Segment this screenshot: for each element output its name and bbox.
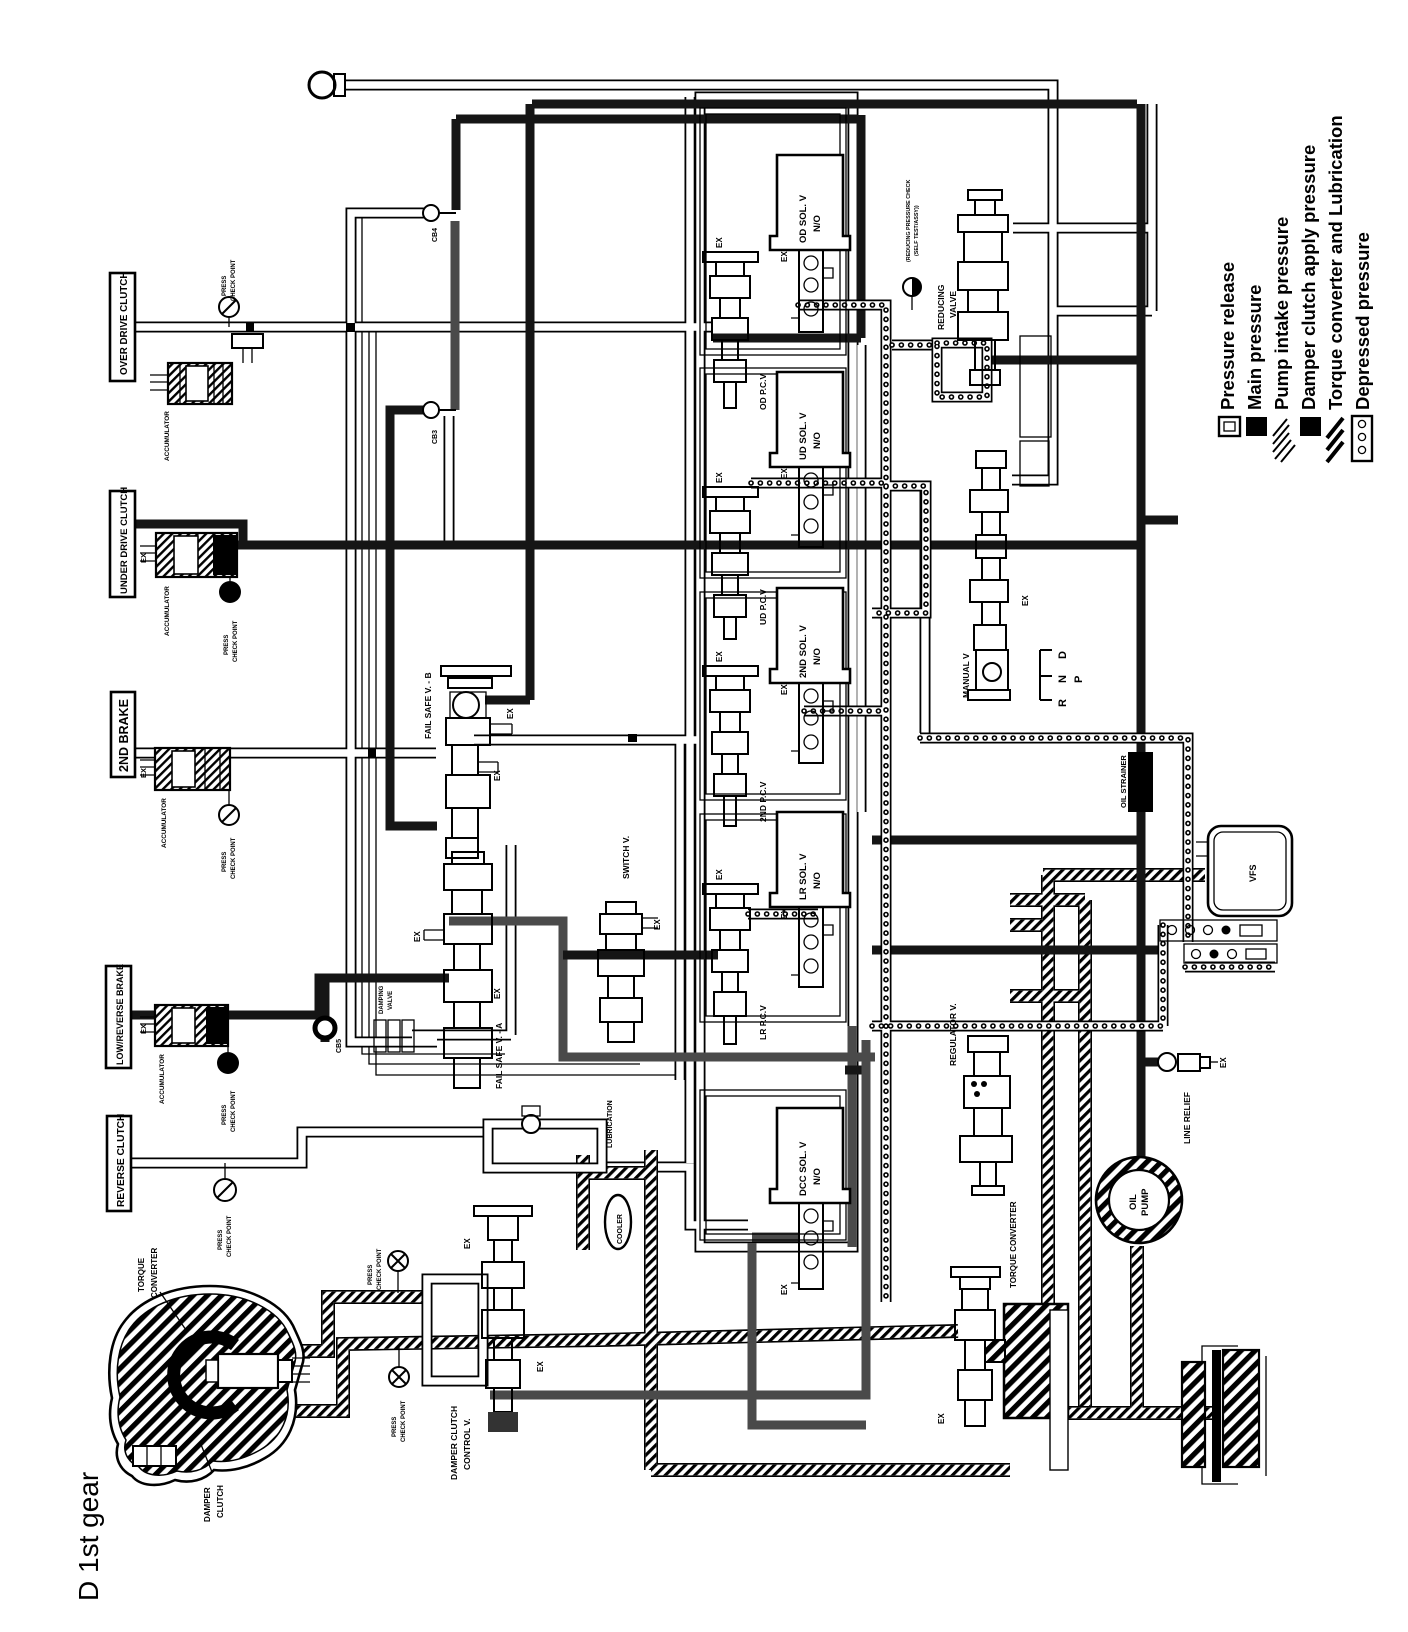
node LOW/REVERSE BRAKE <box>106 964 131 1068</box>
wire: fail safe A staple <box>449 921 875 1057</box>
fail safe A <box>413 852 504 1089</box>
svg-text:D 1st gear: D 1st gear <box>73 1472 104 1601</box>
wire: LR brake line <box>131 978 449 1015</box>
svg-text:PRESS: PRESS <box>218 1230 224 1250</box>
accumulators <box>139 334 263 1104</box>
node UNDER DRIVE CLUTCH <box>110 487 135 597</box>
wire: nested thin runs <box>362 218 693 1075</box>
wire: CB4 upper stub <box>452 119 461 210</box>
valve MANUAL V <box>976 451 1006 468</box>
svg-text:N: N <box>1057 675 1069 683</box>
wire: valve body right vertical <box>856 345 867 812</box>
wire: converter feed double line from circle to right frame <box>344 85 1053 480</box>
valve VFS <box>1196 842 1208 856</box>
svg-text:MANUAL V: MANUAL V <box>961 653 971 698</box>
wire: reducing valve return <box>1013 223 1152 234</box>
valve torque converter <box>951 1267 1000 1277</box>
wire: reducing valve out <box>987 356 1141 365</box>
svg-text:CHECK POINT: CHECK POINT <box>231 1090 237 1132</box>
svg-text:EX: EX <box>1021 595 1030 606</box>
svg-text:UD SOL. V: UD SOL. V <box>798 412 809 460</box>
wire: switch valve vertical <box>675 740 686 1080</box>
cooler <box>605 1100 631 1249</box>
svg-text:CB5: CB5 <box>336 1039 343 1053</box>
accumulator 2ND <box>139 748 230 848</box>
svg-text:CHECK POINT: CHECK POINT <box>231 259 237 301</box>
valve LINE RELIEF <box>1158 1053 1176 1071</box>
svg-text:Main pressure: Main pressure <box>1244 285 1265 410</box>
valve REDUCING VALVE <box>968 190 1002 200</box>
svg-text:EX: EX <box>493 988 502 999</box>
svg-text:EX: EX <box>780 908 789 919</box>
pump OIL PUMP <box>1096 1157 1182 1243</box>
small texts <box>246 323 637 757</box>
wire: UD label link <box>134 524 243 545</box>
svg-text:FAIL SAFE V. - B: FAIL SAFE V. - B <box>423 672 433 739</box>
wire: reverse clutch line tail <box>602 1167 748 1225</box>
svg-text:SWITCH V.: SWITCH V. <box>621 836 631 879</box>
valve LR P.C.V <box>703 884 758 894</box>
wire: CB3 lower double <box>444 416 455 545</box>
node CB5 <box>315 1018 343 1053</box>
wire: LR row bottom <box>872 836 1138 845</box>
svg-text:EX: EX <box>493 770 502 781</box>
node OVER DRIVE CLUTCH <box>110 272 135 381</box>
svg-text:EX: EX <box>715 237 724 248</box>
svg-text:2ND BRAKE: 2ND BRAKE <box>117 699 131 772</box>
svg-text:CHECK POINT: CHECK POINT <box>401 1400 407 1442</box>
svg-text:EX: EX <box>715 472 724 483</box>
valve UD P.C.V <box>703 487 758 497</box>
check balls <box>309 72 602 1168</box>
valve 2ND P.C.V <box>703 666 758 676</box>
svg-text:EX: EX <box>413 931 422 942</box>
svg-text:DAMPER: DAMPER <box>203 1487 212 1522</box>
svg-text:VALVE: VALVE <box>388 991 394 1010</box>
svg-text:Pressure release: Pressure release <box>1217 262 1238 410</box>
node converter feed circle <box>309 72 345 98</box>
svg-text:N/O: N/O <box>812 432 823 449</box>
valve body inner frames <box>700 108 846 1240</box>
svg-text:ACCUMULATOR: ACCUMULATOR <box>164 586 171 636</box>
OD PCV <box>703 237 768 410</box>
svg-text:OIL: OIL <box>1128 1194 1139 1210</box>
wire: main long line UD <box>237 541 1141 550</box>
svg-text:EX: EX <box>780 468 789 479</box>
svg-text:N/O: N/O <box>812 1168 823 1185</box>
wire: frame bottom links <box>848 1026 857 1247</box>
svg-text:FAIL SAFE V. - A: FAIL SAFE V. - A <box>494 1023 504 1089</box>
svg-text:DAMPER CLUTCH: DAMPER CLUTCH <box>449 1406 459 1480</box>
dotted depressed pressure lines <box>748 305 1275 1302</box>
svg-text:CB3: CB3 <box>432 430 439 444</box>
pan filter <box>1202 1346 1238 1484</box>
svg-text:N/O: N/O <box>812 648 823 665</box>
wire: 2nd brake line <box>134 748 436 759</box>
solenoid LR SOL. V <box>770 812 850 987</box>
line relief <box>1158 1053 1228 1144</box>
valve SWITCH V. <box>606 902 636 914</box>
torque converter valve <box>937 1201 1018 1426</box>
valve REGULATOR V. <box>968 1036 1008 1052</box>
press check point UD <box>219 577 241 662</box>
svg-text:P: P <box>1073 676 1085 683</box>
svg-text:N/O: N/O <box>812 872 823 889</box>
svg-text:EX: EX <box>536 1361 545 1372</box>
valve OD P.C.V <box>703 252 758 262</box>
damper clutch crescent <box>174 1337 235 1413</box>
svg-text:EX: EX <box>139 553 148 563</box>
reducing valve <box>903 180 1008 385</box>
svg-text:LR SOL. V: LR SOL. V <box>798 853 809 900</box>
oil pan <box>1182 1346 1266 1484</box>
dotted box under reducing valve <box>937 343 987 397</box>
svg-text:VALVE: VALVE <box>948 291 958 318</box>
wire: regulator feed <box>872 946 1159 955</box>
legend damper clutch apply <box>1298 145 1321 436</box>
solenoid 2ND SOL. V <box>770 588 850 763</box>
svg-text:REVERSE CLUTCH: REVERSE CLUTCH <box>116 1114 127 1207</box>
svg-text:(SELF TEST/ASSY)): (SELF TEST/ASSY)) <box>914 205 920 256</box>
svg-text:EX: EX <box>780 684 789 695</box>
svg-text:EX: EX <box>715 869 724 880</box>
wire: dcc apply line <box>490 1040 866 1395</box>
wire: main top line to right vertical <box>532 104 1141 1160</box>
svg-text:CONTROL V.: CONTROL V. <box>462 1419 472 1470</box>
svg-text:PRESS: PRESS <box>368 1265 374 1285</box>
valve damping <box>374 1020 386 1052</box>
svg-text:D: D <box>1057 651 1069 659</box>
valve FAIL SAFE V.-A <box>452 852 484 864</box>
svg-text:PUMP: PUMP <box>1140 1188 1151 1216</box>
wire: reverse clutch line <box>131 1132 488 1163</box>
bottom cylinder <box>133 1446 176 1466</box>
svg-text:EX: EX <box>506 708 515 719</box>
svg-text:PRESS: PRESS <box>222 276 228 296</box>
svg-text:EX: EX <box>139 768 148 778</box>
svg-text:R: R <box>1057 699 1069 707</box>
LR PCV <box>703 869 768 1044</box>
svg-text:LOW/REVERSE BRAKE: LOW/REVERSE BRAKE <box>115 964 125 1065</box>
node R N D P shifter <box>1040 650 1085 707</box>
wire: over drive clutch line <box>134 322 713 333</box>
valve FAIL SAFE V.-B <box>441 666 511 676</box>
damper clutch control valve <box>427 1206 545 1480</box>
wire: fail safe B drain <box>412 845 511 1035</box>
svg-text:OD SOL. V: OD SOL. V <box>798 194 809 243</box>
wire: right return vertical <box>1053 104 1152 311</box>
torque converter assembly <box>109 1248 310 1522</box>
press check point DCC1 <box>368 1248 408 1293</box>
switch valve <box>598 836 662 1042</box>
svg-text:PRESS: PRESS <box>224 635 230 655</box>
wire: thick vertical to fail safe B top <box>485 104 530 700</box>
wire: strainer side stub <box>1141 516 1178 525</box>
solenoid UD SOL. V <box>770 372 850 547</box>
wire: second top line <box>456 115 861 338</box>
svg-text:REGULATOR V.: REGULATOR V. <box>948 1003 958 1066</box>
oil pump <box>1096 1157 1182 1243</box>
left clutch labels <box>106 272 135 1211</box>
svg-text:LUBRICATION: LUBRICATION <box>607 1100 614 1148</box>
svg-text:EX: EX <box>780 1284 789 1295</box>
wire: manual valve frame left <box>920 490 931 733</box>
svg-text:EX: EX <box>780 251 789 262</box>
node CB3 <box>423 402 439 444</box>
svg-text:Torque converter and Lubricati: Torque converter and Lubrication <box>1325 115 1346 410</box>
wire: CB4 branch + left vertical run A <box>351 213 437 1042</box>
svg-text:TORQUE CONVERTER: TORQUE CONVERTER <box>1009 1201 1018 1288</box>
svg-text:EX: EX <box>1219 1057 1228 1068</box>
legend depressed pressure <box>1352 232 1373 461</box>
svg-text:DCC SOL. V: DCC SOL. V <box>798 1141 809 1196</box>
UD PCV <box>703 472 768 639</box>
svg-text:REDUCING: REDUCING <box>936 284 946 330</box>
legend main pressure <box>1244 285 1267 436</box>
svg-text:CHECK POINT: CHECK POINT <box>227 1215 233 1257</box>
manual valve <box>961 336 1051 700</box>
svg-text:UNDER DRIVE CLUTCH: UNDER DRIVE CLUTCH <box>119 487 130 594</box>
wire: 2nd brake to 2nd pcv <box>474 735 702 746</box>
svg-text:N/O: N/O <box>812 215 823 232</box>
svg-text:PRESS: PRESS <box>222 1105 228 1125</box>
svg-text:OIL STRAINER: OIL STRAINER <box>1119 755 1128 808</box>
accumulator UD <box>139 533 237 636</box>
2ND PCV <box>703 651 768 826</box>
legend pump intake <box>1271 217 1295 462</box>
press check point DCC2 <box>389 1346 409 1442</box>
press check point LR <box>217 1046 239 1132</box>
svg-text:CONVERTER: CONVERTER <box>150 1248 159 1298</box>
svg-text:2ND SOL. V: 2ND SOL. V <box>798 625 809 678</box>
check ball REV bump <box>488 1106 602 1168</box>
accumulator OD <box>150 334 263 461</box>
press check points <box>214 259 409 1442</box>
svg-text:ACCUMULATOR: ACCUMULATOR <box>159 1054 166 1104</box>
hatched pipes: torque converter and lubrication <box>296 875 1213 1470</box>
solenoid DCC SOL. V <box>770 1108 850 1295</box>
svg-text:CB4: CB4 <box>432 228 439 242</box>
press check point REV <box>214 1163 236 1257</box>
wire: switch valve feed <box>563 951 718 960</box>
node CB4 <box>423 205 439 242</box>
svg-text:Pump intake pressure: Pump intake pressure <box>1271 217 1292 410</box>
svg-text:Depressed pressure: Depressed pressure <box>1352 232 1373 410</box>
regulator valve <box>948 1003 1012 1195</box>
solenoid boxes <box>770 155 850 1295</box>
svg-text:EX: EX <box>463 1238 472 1249</box>
legend torque converter lubrication <box>1325 115 1346 462</box>
svg-text:2ND P.C.V: 2ND P.C.V <box>758 781 768 822</box>
svg-text:VFS: VFS <box>1248 864 1258 882</box>
svg-text:CHECK POINT: CHECK POINT <box>233 620 239 662</box>
svg-text:COOLER: COOLER <box>617 1214 624 1244</box>
svg-text:PRESS: PRESS <box>222 852 228 872</box>
thick main pressure lines <box>131 104 1178 1425</box>
svg-text:PRESS: PRESS <box>392 1417 398 1437</box>
oil strainer <box>1119 752 1153 812</box>
svg-text:LR P.C.V: LR P.C.V <box>758 1005 768 1040</box>
svg-text:EX: EX <box>139 1024 148 1034</box>
legend pressure release <box>1217 262 1240 436</box>
labels <box>160 1292 186 1330</box>
svg-text:EX: EX <box>937 1413 946 1424</box>
wire: CB3 to fail safe B <box>390 410 437 826</box>
node 2ND BRAKE <box>111 692 135 777</box>
PIPES <box>131 85 1152 1247</box>
solenoid OD SOL. V <box>770 155 850 332</box>
svg-text:OD P.C.V: OD P.C.V <box>758 373 768 410</box>
wire: valve body frame <box>700 97 853 1247</box>
damping valve <box>374 985 414 1052</box>
svg-text:DAMPING: DAMPING <box>379 985 385 1014</box>
wire: dcc loop <box>752 1237 866 1425</box>
svg-text:ACCUMULATOR: ACCUMULATOR <box>161 798 168 848</box>
legend <box>1217 115 1373 462</box>
valve DAMPER CLUTCH CONTROL V. <box>427 1279 483 1381</box>
node COOLER <box>605 1195 631 1249</box>
svg-text:CLUTCH: CLUTCH <box>216 1485 225 1518</box>
svg-text:CHECK POINT: CHECK POINT <box>231 837 237 879</box>
press check point OD <box>219 259 239 327</box>
svg-text:TORQUE: TORQUE <box>137 1257 146 1292</box>
svg-text:EX: EX <box>715 651 724 662</box>
press check point 2ND <box>219 790 239 879</box>
fail safe B <box>423 666 515 858</box>
torque converter blob <box>109 1286 303 1485</box>
wire: CB5 stub <box>321 978 330 1042</box>
wire: CB4-CB3 link <box>451 221 460 410</box>
svg-text:ACCUMULATOR: ACCUMULATOR <box>164 411 171 461</box>
hatched block by torque converter valve <box>1004 1304 1068 1418</box>
gauge <box>903 278 921 296</box>
svg-text:(REDUCING PRESSURE CHECK: (REDUCING PRESSURE CHECK <box>906 180 912 262</box>
VFS <box>1160 826 1292 963</box>
node junction dots <box>346 323 355 332</box>
turbine shaft <box>218 1354 278 1388</box>
node REVERSE CLUTCH <box>107 1114 131 1211</box>
svg-text:UD P.C.V: UD P.C.V <box>758 589 768 625</box>
wire: valve body mid vertical <box>685 97 696 1163</box>
svg-text:LINE RELIEF: LINE RELIEF <box>1182 1092 1192 1144</box>
svg-text:OVER DRIVE CLUTCH: OVER DRIVE CLUTCH <box>119 272 130 375</box>
wire: line relief stub <box>1141 1058 1160 1067</box>
accumulator LR <box>139 1005 228 1104</box>
svg-text:EX: EX <box>653 919 662 930</box>
svg-text:CHECK POINT: CHECK POINT <box>377 1248 383 1290</box>
svg-text:Damper clutch apply pressure: Damper clutch apply pressure <box>1298 145 1319 410</box>
